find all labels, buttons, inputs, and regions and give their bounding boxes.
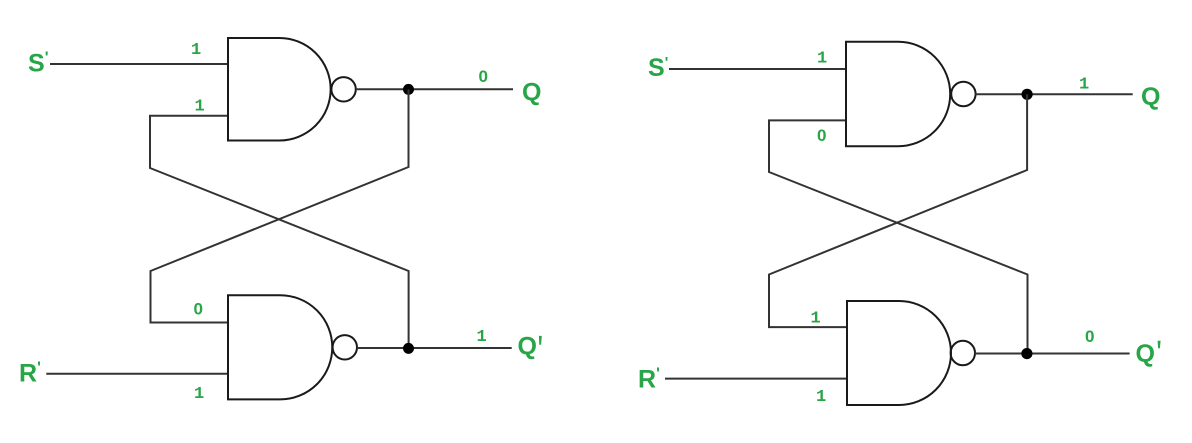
svg-text:1: 1 — [194, 385, 204, 404]
wire: feedback from node Q to U2 input A — [151, 89, 409, 322]
wire: feedback from node Q' to U1 input B — [150, 116, 409, 349]
svg-text:1: 1 — [477, 328, 487, 347]
wire: R' input to U4 input B — [665, 378, 847, 380]
junction node at Q' (right latch) — [1021, 348, 1032, 359]
svg-text:1: 1 — [816, 388, 826, 407]
junction node at Q' (left latch) — [403, 343, 414, 354]
NAND gate U3 body — [846, 42, 950, 146]
U2 inversion bubble — [333, 335, 357, 359]
svg-text:Q: Q — [1136, 340, 1155, 368]
svg-text:S': S' — [648, 54, 668, 82]
svg-text:0: 0 — [479, 67, 488, 86]
wire: feedback from node Q' to U3 input B — [769, 120, 1028, 353]
svg-text:Q: Q — [1141, 83, 1160, 111]
U1 inversion bubble — [331, 77, 355, 101]
svg-text:0: 0 — [194, 300, 203, 319]
svg-text:1: 1 — [1079, 76, 1089, 95]
NAND gate U4 body — [847, 301, 951, 405]
svg-text:1: 1 — [191, 41, 201, 60]
svg-text:1: 1 — [195, 98, 205, 117]
NAND gate U1 body — [228, 38, 331, 141]
wire: S' input to gate U3 input A — [669, 68, 846, 70]
wire: feedback from node Q to U4 input A — [769, 94, 1027, 327]
svg-text:1: 1 — [817, 50, 827, 69]
wire: S' input to gate U1 input A — [50, 63, 228, 65]
U3 inversion bubble — [951, 82, 975, 106]
svg-text:S': S' — [28, 50, 49, 78]
svg-text:Q: Q — [518, 333, 537, 361]
U4 inversion bubble — [951, 341, 975, 365]
wire: U2 output to Q' — [357, 347, 512, 349]
svg-text:0: 0 — [817, 126, 826, 145]
wire: U1 output to Q — [356, 88, 513, 90]
svg-text:1: 1 — [811, 310, 821, 329]
junction node at Q (left latch) — [403, 84, 414, 95]
svg-text:R': R' — [638, 366, 660, 394]
wire: R' input to U2 input B — [46, 373, 228, 375]
wire: U3 output to Q — [975, 93, 1132, 95]
junction node at Q (right latch) — [1022, 89, 1033, 100]
NAND gate U2 body — [228, 295, 332, 399]
wire: U4 output to Q' — [975, 353, 1130, 355]
svg-text:0: 0 — [1085, 327, 1094, 346]
svg-text:R': R' — [19, 360, 41, 388]
svg-text:Q: Q — [522, 78, 541, 106]
